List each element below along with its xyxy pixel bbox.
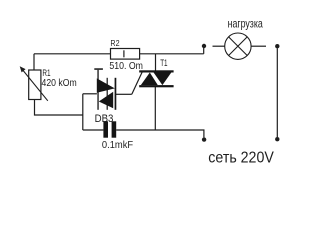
node bottom left terminal dot: [202, 137, 206, 141]
wire diac right to gate: [116, 93, 132, 95]
diac lower triangle (points left): [99, 92, 113, 109]
diac middle vertical line: [107, 78, 108, 110]
wire bottom right from capacitor: [116, 130, 204, 137]
wire diac left: [83, 93, 97, 95]
svg-text:R2: R2: [110, 38, 119, 48]
R1 wiper arrow line: [22, 70, 48, 101]
triac left triangle (points up): [141, 73, 158, 86]
wire right rail: [276, 48, 278, 137]
resistor R1 (variable) body: [29, 70, 41, 100]
wire R1 bottom to left riser: [35, 100, 83, 116]
wire jog up to lamp terminal: [203, 46, 205, 54]
triac right triangle (points down): [154, 73, 172, 86]
diac right vertical bar: [115, 78, 117, 110]
triac bottom bar: [139, 85, 173, 87]
wire top rail left: [34, 53, 111, 55]
wire lamp left lead: [213, 45, 225, 47]
node right top terminal dot: [275, 44, 279, 48]
triac top bar: [139, 70, 173, 72]
resistor R2 body: [111, 49, 140, 60]
wire triac top lead: [155, 54, 157, 71]
wire lamp right lead: [251, 45, 266, 47]
svg-text:420 kOm: 420 kOm: [42, 77, 77, 89]
R1 wiper arrowhead: [20, 66, 26, 72]
wire top rail right: [140, 53, 204, 55]
lamp (load) circle with cross: [225, 33, 251, 59]
R2 inner tick: [123, 50, 125, 57]
svg-text:0.1mkF: 0.1mkF: [102, 140, 133, 151]
diac upper triangle (points right): [97, 78, 115, 92]
svg-text:T1: T1: [160, 58, 167, 68]
diac top terminal bar: [94, 68, 103, 70]
node top terminal dot: [202, 44, 206, 48]
wire gate diagonal to triac: [132, 72, 143, 95]
wire bottom left to capacitor: [83, 129, 104, 131]
node right bottom terminal dot: [275, 137, 279, 141]
triac T1: [139, 70, 173, 87]
wire triac bottom lead: [154, 87, 156, 130]
diac left lead line: [97, 70, 98, 110]
diac DB3: [94, 68, 116, 110]
svg-text:нагрузка: нагрузка: [228, 16, 263, 30]
capacitor C 0.1mkF right plate: [112, 121, 117, 137]
svg-text:сеть 220V: сеть 220V: [208, 149, 274, 166]
svg-text:510. Om: 510. Om: [109, 60, 143, 72]
wire left drop from top rail to R1: [33, 54, 35, 70]
capacitor C 0.1mkF left plate: [103, 121, 108, 137]
wire left riser: [82, 94, 84, 130]
